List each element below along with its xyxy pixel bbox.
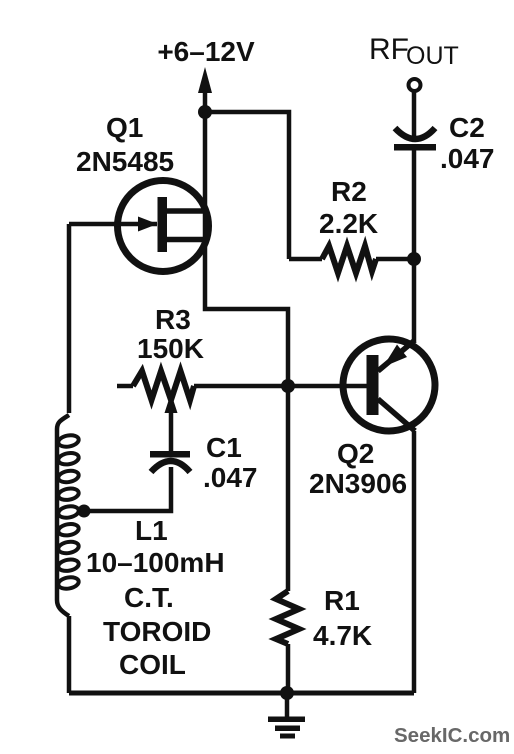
wire coil bottom to ground rail <box>67 616 72 693</box>
wire Q1 gate to left rail down to coil top <box>67 224 72 413</box>
wire RF terminal to C2 top plate <box>412 93 417 140</box>
svg-text:.047: .047 <box>440 143 495 174</box>
svg-text:COIL: COIL <box>119 649 186 680</box>
resistor R1 <box>276 591 299 644</box>
resistor R3 <box>133 371 194 400</box>
svg-text:4.7K: 4.7K <box>313 620 372 651</box>
capacitor C1 <box>150 451 190 472</box>
svg-text:10–100mH: 10–100mH <box>86 547 225 578</box>
svg-text:C.T.: C.T. <box>124 582 174 613</box>
svg-text:150K: 150K <box>137 333 204 364</box>
svg-text:L1: L1 <box>135 515 168 546</box>
resistor R2 <box>322 246 376 273</box>
wire R2 right lead <box>376 257 414 262</box>
svg-text:+6–12V: +6–12V <box>157 36 255 67</box>
svg-text:2N5485: 2N5485 <box>76 146 174 177</box>
wire supply rail down past Q1 with jog to base node <box>205 112 288 386</box>
node ground junction dot <box>280 686 294 700</box>
wire R1 bottom lead <box>286 644 291 693</box>
ground <box>268 693 305 739</box>
wire R2 left lead <box>289 257 322 262</box>
svg-text:TOROID: TOROID <box>103 616 211 647</box>
svg-text:R3: R3 <box>155 304 191 335</box>
wire base node down to R1 <box>286 386 291 591</box>
svg-text:R2: R2 <box>331 176 367 207</box>
wire R3 left stub <box>117 384 133 389</box>
wire R3 right lead to base node <box>194 384 288 389</box>
transistor Q1 JFET 2N5485 <box>69 181 209 272</box>
svg-text:Q2: Q2 <box>337 438 374 469</box>
wire Q2 collector down right rail to ground rail <box>412 431 417 693</box>
svg-text:SeekIC.com: SeekIC.com <box>394 724 510 747</box>
wire C2 bottom plate to R2 node <box>412 150 417 259</box>
wire base node to Q2 base <box>288 384 368 389</box>
transistor Q2 PNP 2N3906 <box>343 339 435 431</box>
svg-text:C2: C2 <box>449 112 485 143</box>
wire ground rail <box>69 691 414 696</box>
wire junction down to Q2 emitter <box>412 259 417 341</box>
svg-text:2N3906: 2N3906 <box>309 468 407 499</box>
capacitor C2 <box>394 128 436 151</box>
node R2/C2/emitter junction dot <box>407 252 421 266</box>
svg-text:2.2K: 2.2K <box>319 208 378 239</box>
power supply arrow <box>198 67 212 112</box>
node RF output terminal <box>409 79 421 91</box>
svg-text:RF: RF <box>369 33 409 66</box>
wiper arrow from C1 to R3 <box>165 393 178 452</box>
node coil center tap dot <box>78 505 91 518</box>
wire C1 bottom to coil center tap <box>84 467 171 511</box>
node supply junction dot <box>198 105 212 119</box>
svg-text:R1: R1 <box>324 585 360 616</box>
svg-text:OUT: OUT <box>406 42 459 70</box>
svg-text:.047: .047 <box>203 462 258 493</box>
inductor L1 coil <box>57 415 80 616</box>
node base junction dot <box>281 379 295 393</box>
label RF OUT <box>369 33 459 70</box>
wire supply dot to R2 branch corner <box>205 112 289 259</box>
svg-text:C1: C1 <box>206 432 242 463</box>
svg-text:Q1: Q1 <box>106 112 143 143</box>
